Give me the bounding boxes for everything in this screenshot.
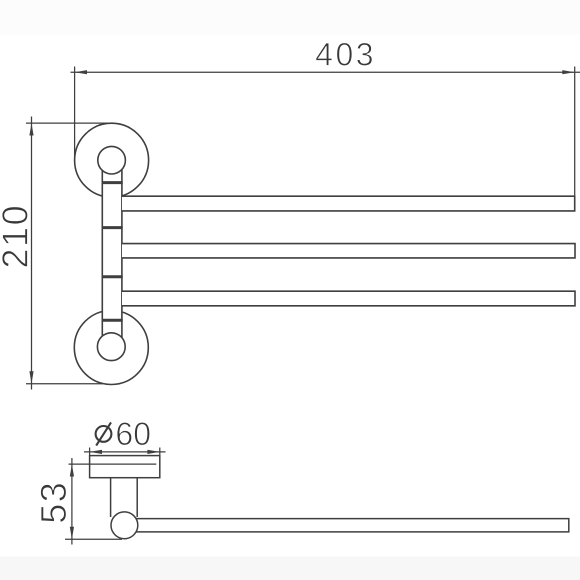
post pivot inner circle (top) xyxy=(98,146,126,174)
post right edge xyxy=(121,169,123,338)
post divider 1 xyxy=(102,181,123,184)
dim 403 arrow right xyxy=(562,70,574,74)
side view towel bar xyxy=(136,519,569,532)
dim 403 dimension line xyxy=(71,71,580,73)
dim 60 extension line right xyxy=(159,448,161,456)
side view: 53 top extension line crossing plate xyxy=(69,463,157,465)
post left edge xyxy=(101,169,103,338)
bottom tint band xyxy=(0,557,580,580)
side view pivot ball xyxy=(111,512,138,539)
side view post left edge xyxy=(110,478,112,517)
top tint band xyxy=(0,0,580,35)
svg-text:53: 53 xyxy=(33,481,74,524)
dim 53 dimension line xyxy=(71,458,73,545)
post divider 2 xyxy=(102,226,123,229)
side view post right edge xyxy=(136,478,138,517)
swivel post body xyxy=(102,168,123,338)
dim 53 arrow down xyxy=(70,527,74,539)
side view wall plate xyxy=(90,456,160,478)
towel arm 1 xyxy=(122,196,575,211)
dim 60 arrow left xyxy=(90,450,102,454)
dim 60 extension line left xyxy=(89,448,91,456)
dim 53 arrow up xyxy=(70,464,74,476)
dim 53 extension line bottom xyxy=(65,538,122,540)
dim 403 extension line right xyxy=(574,67,576,197)
wall plate outer circle (bottom) xyxy=(74,311,148,385)
svg-text:60: 60 xyxy=(115,416,151,452)
dim 60 dimension line xyxy=(84,451,166,453)
towel arm 3 xyxy=(122,291,575,306)
svg-text:210: 210 xyxy=(0,204,35,269)
wall plate outer circle (top) xyxy=(75,123,149,197)
dim 210 arrow up xyxy=(29,123,33,135)
post divider 4 xyxy=(102,319,123,322)
label diameter 60 symbol xyxy=(96,422,112,445)
svg-text:403: 403 xyxy=(315,37,376,73)
dim 210 extension line top xyxy=(26,122,112,124)
dim 210 arrow down xyxy=(29,371,33,383)
post pivot inner circle (bottom) xyxy=(97,333,125,361)
towel arm 2 xyxy=(122,244,575,258)
post divider 3 xyxy=(102,275,123,278)
dim 210 extension line bottom xyxy=(26,383,103,385)
dim 403 arrow left xyxy=(75,70,87,74)
dim 210 dimension line xyxy=(31,117,33,390)
dim 403 extension line left xyxy=(74,67,76,159)
side view plate internal line redraw xyxy=(90,463,157,465)
dim 60 arrow right xyxy=(147,450,159,454)
